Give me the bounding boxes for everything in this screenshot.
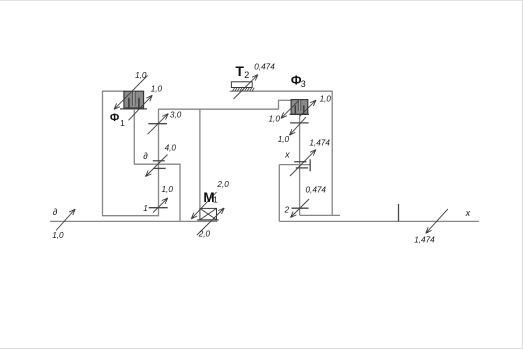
tick on V4 at node 2: [292, 207, 309, 209]
arrow 3,0 up-right on V2: [148, 114, 169, 135]
tick on V2 for arrow 1,0 node 1: [149, 207, 168, 209]
wire: lower horizontal x=102..158: [102, 215, 159, 217]
svg-text:∂: ∂: [143, 151, 148, 161]
wire: left outer vertical V1: [102, 91, 104, 216]
svg-text:3: 3: [301, 79, 306, 89]
arrow 1,0 down-left through F3: [281, 100, 299, 118]
svg-text:1: 1: [120, 119, 125, 128]
svg-text:x: x: [465, 208, 471, 218]
wire: right wall vertical x=335.2: [331, 91, 333, 216]
wire: long horizontal H2 y=108: [159, 108, 279, 110]
lower tick on V4 at piston x: [296, 167, 308, 169]
svg-text:2,0: 2,0: [198, 230, 211, 239]
wire: step vertical left of damper PH3: [278, 100, 280, 109]
svg-text:1,0: 1,0: [320, 94, 332, 103]
arrow 1,0 up-right at left axis node d: [56, 209, 75, 230]
wire: base line under damper PH3: [290, 113, 310, 115]
upper tick on V2 for arrow 4,0: [153, 160, 165, 162]
wire: top-right horizontal from T2 support: [230, 90, 332, 92]
svg-text:1,0: 1,0: [52, 231, 64, 240]
svg-text:1: 1: [143, 204, 148, 213]
piston end bar: [309, 159, 311, 171]
svg-text:1,474: 1,474: [309, 139, 330, 148]
svg-text:0,474: 0,474: [306, 186, 327, 195]
wire: step horizontal into damper PH3: [278, 99, 291, 101]
svg-text:x: x: [284, 150, 290, 160]
arrow 0,474 down-left at node 2: [291, 199, 310, 218]
wire: horizontal piston rod y=163.6: [279, 164, 310, 166]
ground line left segment (x-axis): [50, 220, 217, 222]
wire: inner bottom horizontal right structure: [300, 214, 340, 216]
svg-text:4,0: 4,0: [165, 143, 177, 152]
arrow 1,474 up-right at piston x: [290, 150, 316, 176]
wire: inner vertical V2 x=158.5: [158, 109, 160, 216]
svg-text:2: 2: [284, 206, 290, 215]
svg-text:0,474: 0,474: [254, 62, 275, 71]
arrow 2,0 up-right at mass M1: [197, 208, 224, 235]
arrow 1,0 up-right at node 1: [153, 198, 168, 213]
svg-text:T: T: [235, 63, 244, 79]
svg-text:2,0: 2,0: [216, 180, 229, 189]
support T2 box: [231, 82, 252, 88]
arrow 4,0 down-left at node d: [146, 155, 168, 177]
friction damper F3 block: [291, 100, 308, 115]
tick on V2 for arrow 3,0: [148, 123, 167, 125]
arrow 1,0 up-right at F1: [129, 95, 153, 120]
svg-text:1,0: 1,0: [135, 71, 147, 80]
upper tick on V4 at piston x: [294, 161, 306, 163]
svg-text:1,0: 1,0: [269, 115, 281, 124]
wire: vertical V3 x=199.9 down to mass M1: [199, 109, 201, 208]
lower tick on V2 for arrow 4,0: [154, 167, 166, 169]
arrow 1,474 down-left at right axis: [426, 209, 448, 233]
tick on V4 below damper PH3: [290, 122, 309, 124]
arrow down-left at mass M1: [191, 192, 216, 219]
wire: base line under damper PH1: [120, 108, 147, 110]
svg-text:1,0: 1,0: [162, 185, 174, 194]
arrow 1,0 down-left below F3: [290, 117, 307, 135]
svg-text:∂: ∂: [53, 207, 58, 217]
page border right: [521, 1, 523, 349]
wire: vertical x=279.3 of right structure: [278, 165, 280, 222]
wire: top-left horizontal to damper PH1: [102, 90, 124, 92]
wire: vertical x=180 down to ground: [179, 164, 181, 222]
friction damper F1 block: [124, 91, 144, 108]
svg-text:1,474: 1,474: [414, 236, 435, 245]
wire: vertical from PH1 base down: [133, 109, 135, 164]
svg-text:1: 1: [213, 195, 218, 205]
wire: mid-left horizontal shelf: [134, 163, 180, 165]
svg-text:2: 2: [244, 70, 249, 80]
svg-text:1,0: 1,0: [151, 85, 163, 94]
svg-text:1,0: 1,0: [278, 135, 290, 144]
wire: center-right vertical V4 x=299.6: [299, 114, 301, 215]
mass M1 box with cross: [200, 208, 217, 219]
axis marker tick x=398.5: [398, 204, 400, 222]
base segment under mass M1: [197, 219, 218, 221]
support T2 hatching: [233, 88, 255, 91]
svg-text:3,0: 3,0: [170, 110, 182, 119]
ground line right segment (x-axis): [279, 220, 479, 222]
arrow 0,474 up-right through T2: [234, 75, 258, 99]
arrow 1,0 down-left through F1: [114, 76, 148, 110]
arrow 1,0 up-right through F3: [300, 100, 316, 116]
svg-text:Ф: Ф: [110, 112, 119, 124]
page border bottom: [0, 348, 523, 349]
